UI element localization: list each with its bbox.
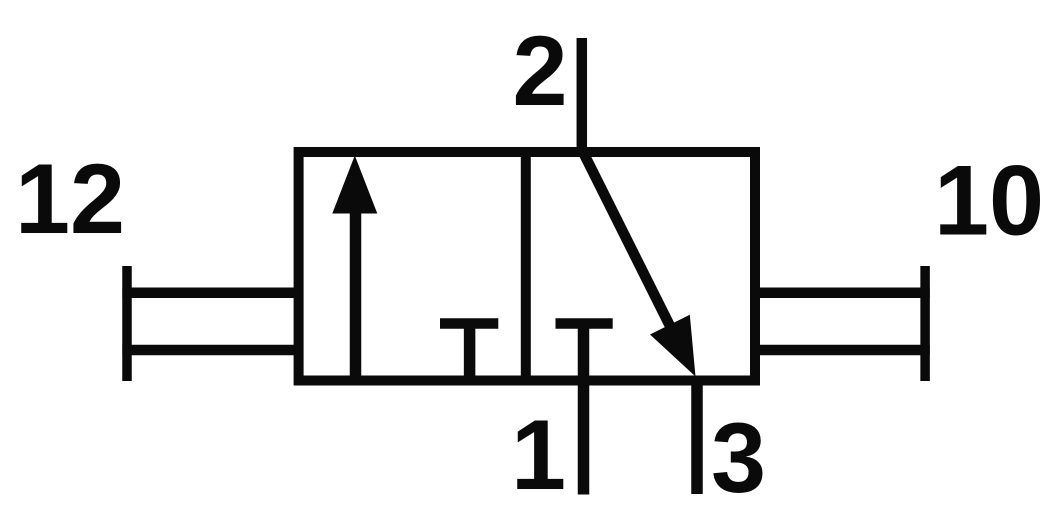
pilot line 10 lower wire <box>755 345 930 356</box>
svg-text:12: 12 <box>15 143 125 254</box>
svg-text:1: 1 <box>511 399 566 510</box>
svg-text:10: 10 <box>934 145 1044 256</box>
pilot line 12 end cap <box>122 266 132 381</box>
svg-text:3: 3 <box>711 402 766 513</box>
flow arrow head (left position) <box>332 156 377 214</box>
position divider wire <box>521 147 531 386</box>
flow path arrow head (right position, at port 3) <box>650 315 696 377</box>
pilot line 12 upper wire <box>122 288 298 299</box>
pilot line 10 upper wire <box>755 288 930 299</box>
valve body (two-position envelope) <box>299 152 755 381</box>
flow path diagonal wire (right position, 2 to 3) <box>583 152 672 330</box>
svg-text:2: 2 <box>512 15 567 126</box>
flow arrow stem (left position, ports 12 to 2) <box>350 205 362 381</box>
port 2 line <box>577 38 588 157</box>
blocked port T bar (right position) <box>556 318 613 329</box>
pilot line 10 end cap <box>920 266 930 381</box>
port 3 line <box>691 378 703 494</box>
blocked port T stem (left position) <box>464 324 476 382</box>
port 1 line with blocked-port stem <box>578 324 590 495</box>
pilot line 12 lower wire <box>122 345 298 356</box>
blocked port T bar (left position) <box>440 318 498 329</box>
